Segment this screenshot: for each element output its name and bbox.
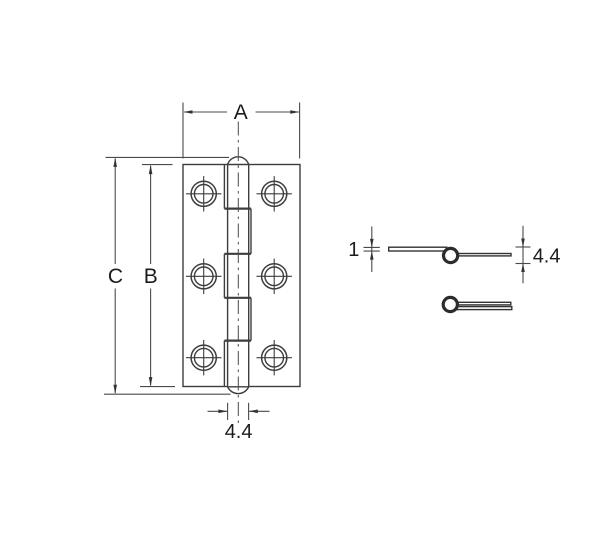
screw hole mid-left bbox=[186, 259, 221, 294]
hinge leaf plate outline bbox=[183, 165, 300, 387]
knuckle column with rounded caps bbox=[228, 157, 249, 394]
dimension B: dimension line and arrows bbox=[149, 165, 153, 386]
dimension 4.4 (pin diameter, side view): line, ticks, arrows bbox=[516, 226, 531, 283]
side view (folded): upper leaf bar bbox=[456, 302, 511, 305]
knuckle segment offset line right (segments 2,4) bbox=[250, 209, 252, 341]
side view (open): left leaf bar bbox=[389, 247, 447, 251]
screw hole top-right bbox=[257, 176, 292, 211]
screw hole bottom-left bbox=[186, 340, 221, 375]
dimension 1 (leaf thickness): line, ticks, arrows bbox=[364, 227, 380, 273]
svg-text:4.4: 4.4 bbox=[225, 421, 253, 443]
dimension B: extension lines bbox=[140, 165, 175, 387]
knuckle joint dividers bbox=[224, 209, 251, 341]
svg-text:1: 1 bbox=[348, 239, 359, 261]
screw hole top-left bbox=[186, 176, 221, 211]
dimension A: extension lines bbox=[183, 103, 300, 159]
svg-text:4.4: 4.4 bbox=[533, 246, 561, 268]
side view (open): right leaf bar bbox=[452, 254, 511, 256]
side view (folded): pin circle bbox=[443, 297, 457, 311]
dimension 4.4 (bottom): dimension line and arrows bbox=[208, 410, 270, 414]
knuckle bottom chord bbox=[228, 386, 249, 388]
dimension C: dimension line and arrows bbox=[113, 158, 117, 394]
screw hole mid-right bbox=[257, 259, 292, 294]
knuckle top chord (plate top edge across knuckle) bbox=[228, 164, 249, 166]
side view (folded): lower leaf bar bbox=[456, 307, 512, 310]
dimension 4.4 (pin width, bottom): extension lines bbox=[228, 403, 249, 420]
knuckle segment offset line left (segments 1,3,5) bbox=[223, 165, 225, 387]
svg-text:A: A bbox=[234, 101, 248, 124]
dimension C: extension lines bbox=[104, 157, 231, 394]
dimension A: dimension line and arrows bbox=[183, 110, 299, 114]
svg-text:B: B bbox=[144, 265, 158, 288]
pin centerline (dash-dot) bbox=[237, 122, 239, 426]
side view (open): pin circle bbox=[444, 248, 458, 262]
screw hole bottom-right bbox=[257, 340, 292, 375]
svg-text:C: C bbox=[108, 265, 123, 288]
